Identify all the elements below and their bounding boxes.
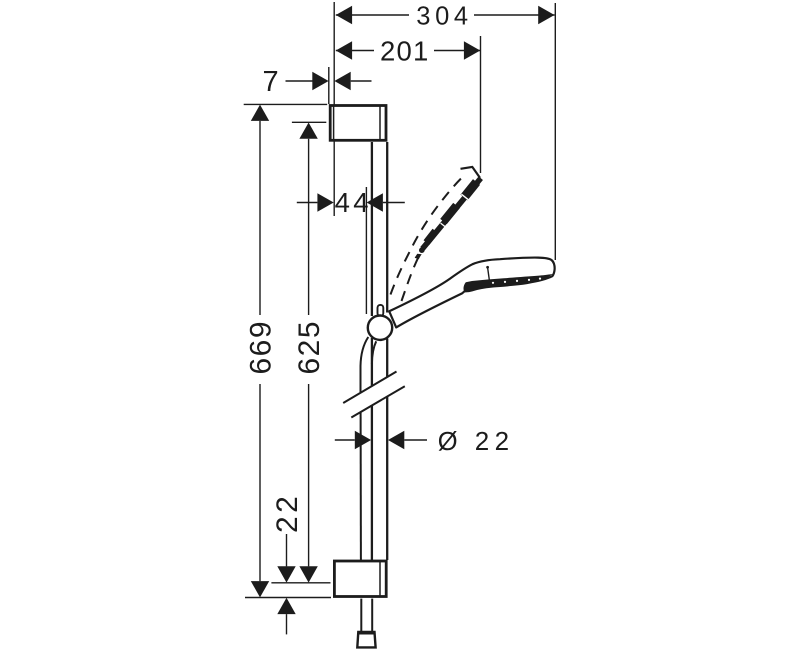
extension line left (wall/bracket inner edge) (333, 2, 335, 216)
hose end cone (357, 632, 375, 647)
rail right edge (386, 142, 388, 560)
dimension 669 (244, 105, 277, 598)
folded handshower head cap (461, 167, 481, 178)
dimension 22 bottom (271, 493, 304, 635)
break mark diagonals (343, 372, 405, 418)
dimension 625 (293, 123, 326, 583)
svg-text:201: 201 (380, 35, 429, 66)
handshower head joint tick (486, 266, 489, 280)
hose (361, 337, 377, 632)
svg-text:7: 7 (263, 66, 279, 98)
svg-text:Ø: Ø (438, 428, 458, 456)
svg-text:304: 304 (416, 2, 472, 30)
extension line 201 right (folded head edge) (480, 36, 482, 173)
extension line right (head outer edge) (554, 3, 556, 260)
extension line top of rail assembly (244, 103, 328, 105)
svg-text:44: 44 (335, 187, 372, 218)
dimension 44 (297, 187, 405, 218)
extension line 625 top (292, 121, 326, 123)
folded handshower dashed outline outer (391, 174, 467, 295)
dimension 7 (263, 66, 372, 98)
holder pin (378, 305, 384, 316)
extension line 625 bottom (271, 582, 330, 584)
extension line 7 left (wall face) (328, 67, 330, 104)
svg-text:22: 22 (271, 493, 304, 533)
dimension diameter 22 (335, 426, 515, 456)
rail left edge (371, 142, 373, 560)
extension line 669 bottom (245, 597, 331, 599)
handshower spray face band (463, 274, 552, 291)
extension line 44 right (holder hose) (365, 187, 367, 314)
dimension 304 (336, 2, 555, 30)
folded handshower dashed outline inner (402, 245, 426, 302)
svg-text:669: 669 (244, 320, 277, 375)
holder slider circle (368, 316, 392, 340)
dimension 201 (336, 35, 480, 66)
folded handshower spray face (415, 178, 481, 259)
svg-text:625: 625 (293, 320, 326, 375)
wall bracket bottom (334, 561, 386, 597)
wall bracket top (330, 106, 386, 141)
svg-text:22: 22 (475, 426, 515, 456)
handshower handle and head (389, 258, 554, 328)
